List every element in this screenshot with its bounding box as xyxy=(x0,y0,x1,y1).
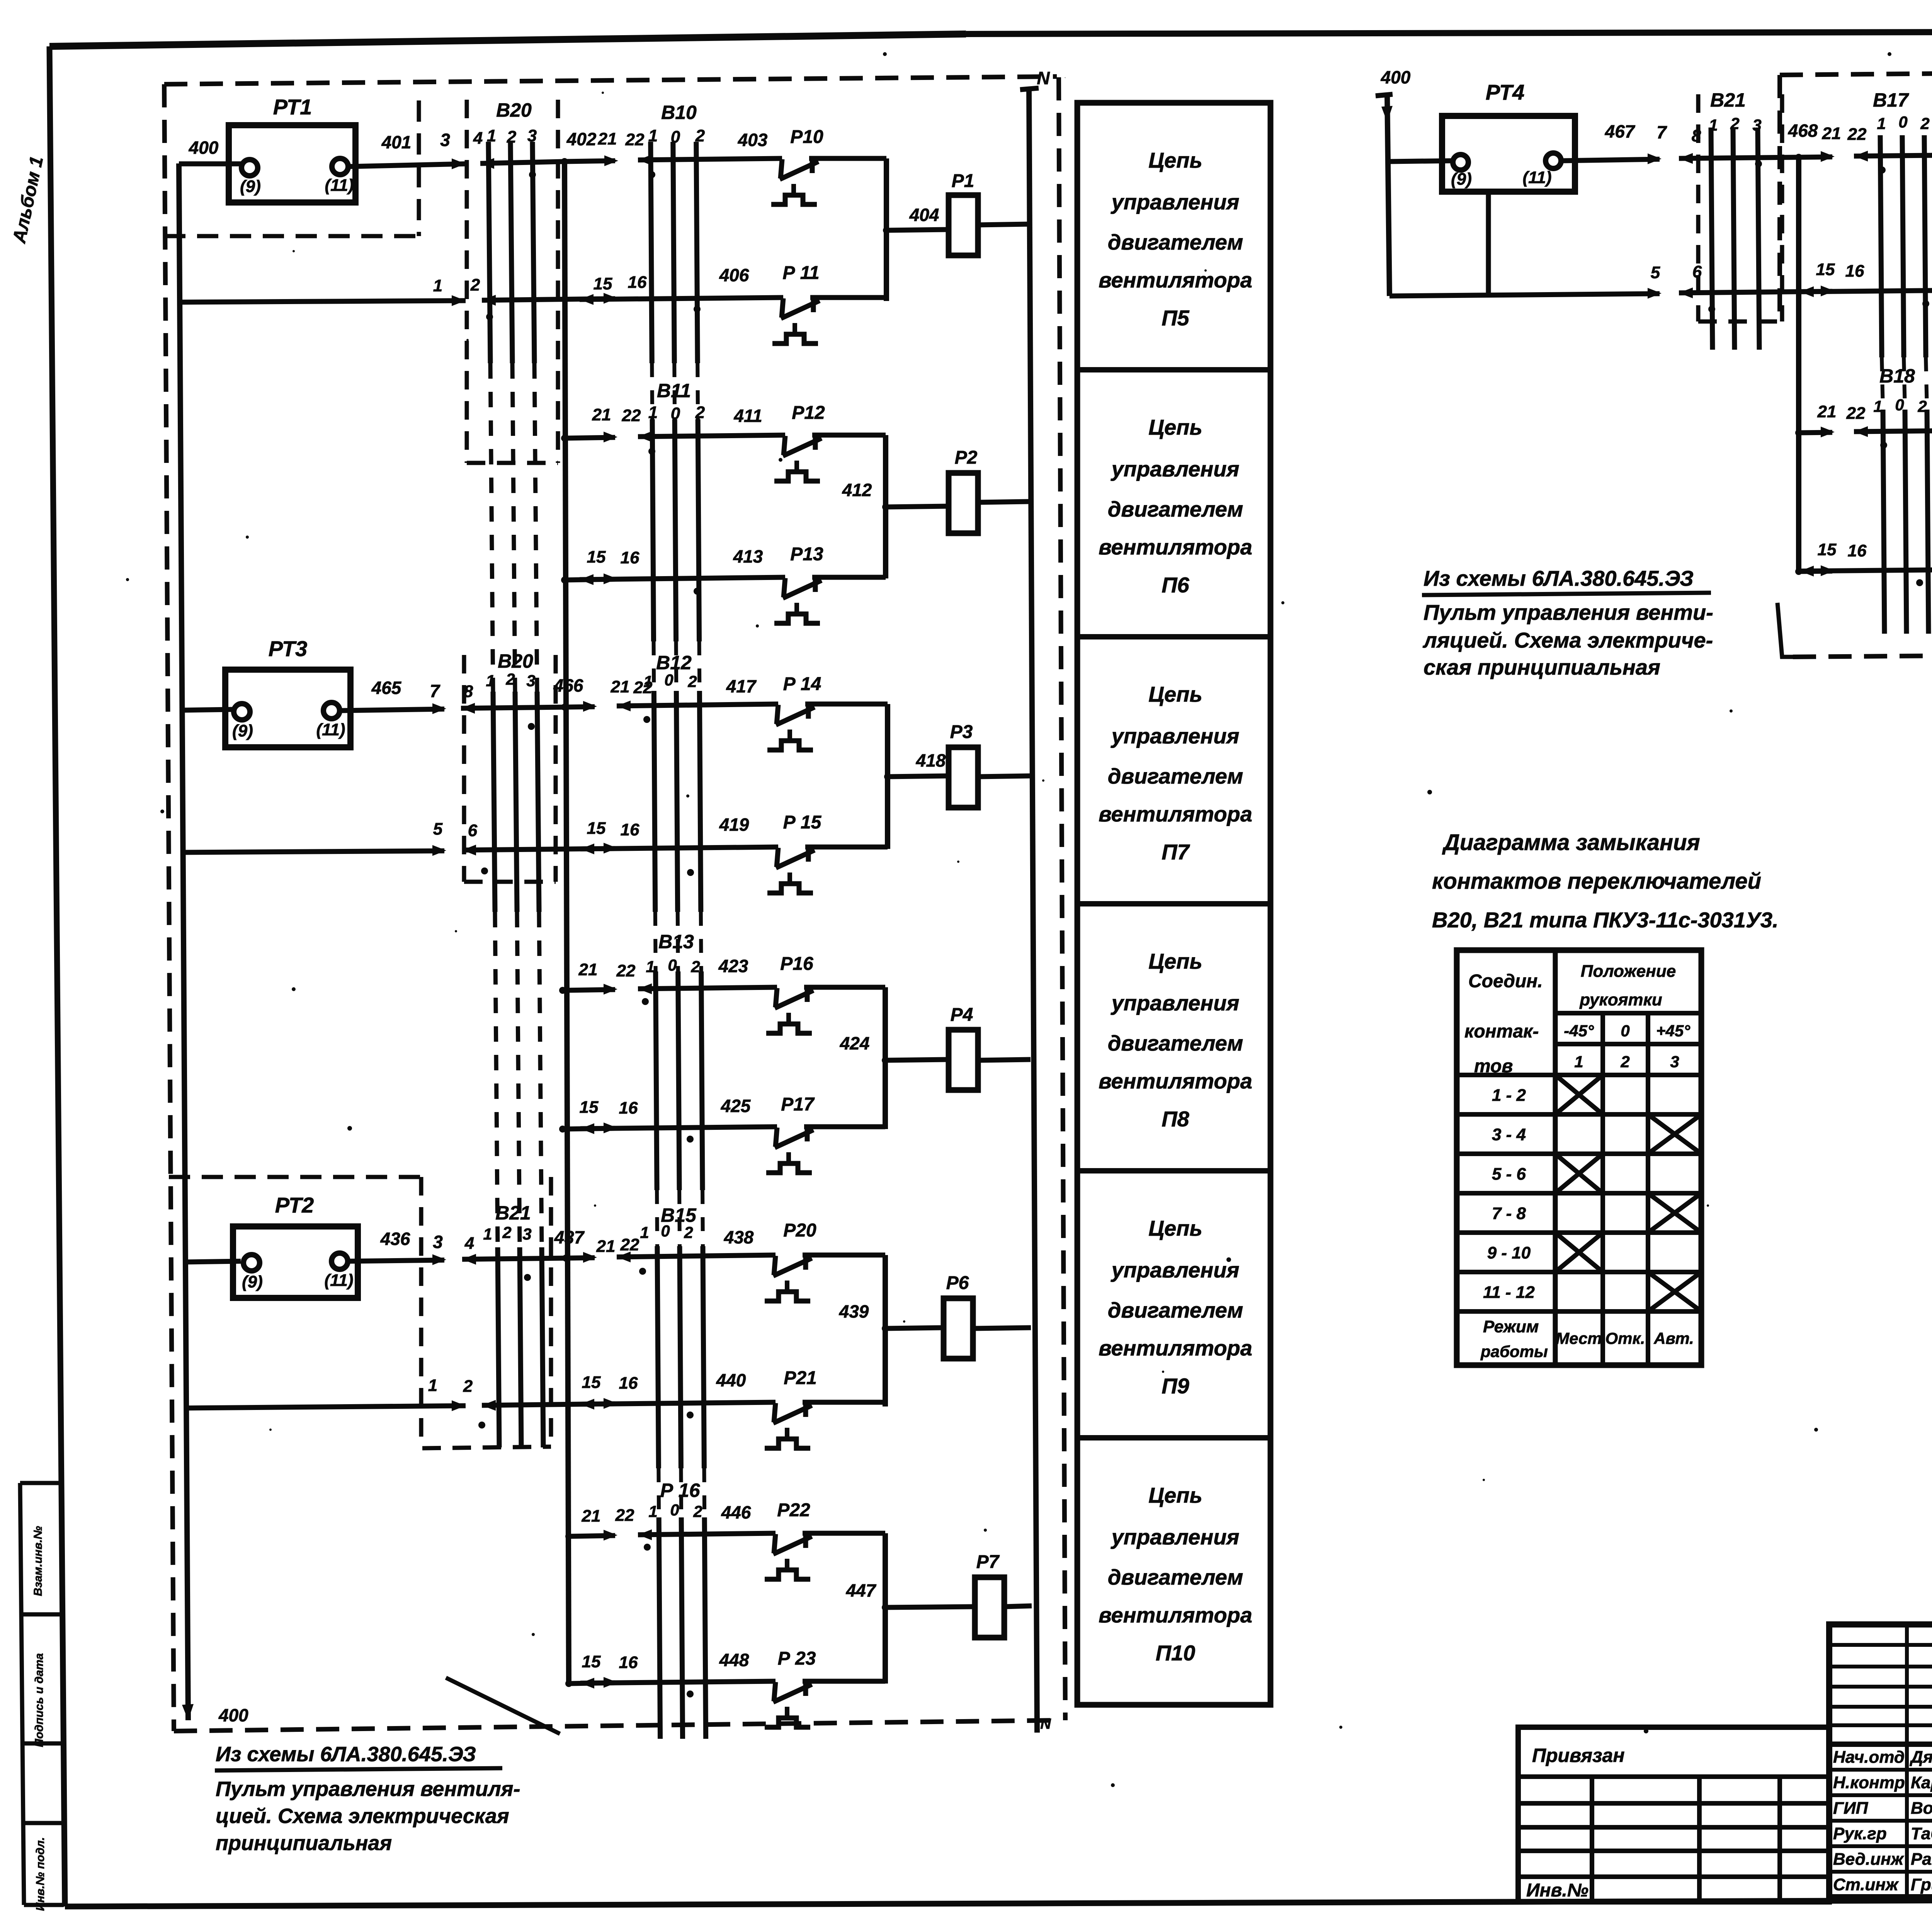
svg-text:16: 16 xyxy=(1848,541,1867,560)
svg-text:15: 15 xyxy=(1816,260,1835,279)
svg-text:Р6: Р6 xyxy=(946,1273,969,1293)
svg-text:440: 440 xyxy=(716,1370,746,1390)
svg-text:22: 22 xyxy=(615,1506,634,1525)
contact Р12 xyxy=(774,434,821,481)
svg-text:0: 0 xyxy=(668,956,677,974)
vertical feed wire 402/466/437 xyxy=(565,162,569,1684)
callout leader xyxy=(446,1678,560,1734)
thermostat RT4 xyxy=(1442,116,1575,192)
svg-text:В20, В21 типа ПКУ3-11с-3031У3.: В20, В21 типа ПКУ3-11с-3031У3. xyxy=(1432,908,1779,932)
svg-text:446: 446 xyxy=(721,1502,751,1522)
function description boxes P5-P10 xyxy=(1077,103,1270,1705)
svg-text:Взам.инв.№: Взам.инв.№ xyxy=(32,1526,44,1596)
svg-text:Отк.: Отк. xyxy=(1605,1329,1645,1347)
svg-text:2: 2 xyxy=(695,403,705,422)
svg-text:двигателем: двигателем xyxy=(1108,764,1243,788)
svg-text:1: 1 xyxy=(486,672,495,690)
contact Р16 xyxy=(766,986,813,1033)
contact Р13 xyxy=(774,577,821,623)
svg-text:7: 7 xyxy=(1656,122,1667,142)
svg-text:Р20: Р20 xyxy=(783,1220,816,1241)
svg-text:вентилятора: вентилятора xyxy=(1099,268,1252,292)
svg-text:Положение: Положение xyxy=(1581,962,1676,981)
svg-text:8: 8 xyxy=(464,682,473,701)
svg-text:16: 16 xyxy=(619,1653,638,1672)
svg-text:16: 16 xyxy=(619,1099,638,1117)
svg-text:2: 2 xyxy=(502,1223,511,1242)
svg-text:Р21: Р21 xyxy=(784,1368,816,1388)
svg-text:465: 465 xyxy=(371,678,402,698)
svg-text:468: 468 xyxy=(1788,121,1818,141)
svg-text:Р16: Р16 xyxy=(780,954,813,974)
svg-text:1: 1 xyxy=(646,957,655,976)
left margin strip xyxy=(20,1483,24,1905)
svg-text:В20: В20 xyxy=(498,650,533,672)
row B of P6 group xyxy=(565,579,615,580)
svg-text:2: 2 xyxy=(1917,397,1927,415)
svg-text:Нач.отд: Нач.отд xyxy=(1833,1748,1905,1767)
svg-text:(9): (9) xyxy=(1451,170,1472,189)
thermostat RT1 dashed box xyxy=(164,234,419,238)
svg-text:423: 423 xyxy=(718,956,748,976)
svg-text:Ратнер: Ратнер xyxy=(1911,1850,1932,1869)
svg-text:В21: В21 xyxy=(1710,89,1746,111)
svg-text:11 - 12: 11 - 12 xyxy=(1483,1283,1535,1302)
svg-text:418: 418 xyxy=(916,750,946,770)
thermostat RT1 xyxy=(229,125,355,202)
svg-text:1: 1 xyxy=(483,1225,492,1243)
svg-text:2: 2 xyxy=(463,1377,473,1396)
svg-text:1: 1 xyxy=(433,276,442,295)
coil wire 404 xyxy=(886,230,949,230)
svg-text:413: 413 xyxy=(733,546,763,566)
B20 dashed box (RT1 deck) xyxy=(465,100,469,463)
row B of P11 group xyxy=(1389,294,1660,296)
svg-text:411: 411 xyxy=(733,406,762,426)
svg-text:0: 0 xyxy=(671,404,680,423)
node 400 bus xyxy=(179,163,188,1720)
svg-text:16: 16 xyxy=(621,820,639,839)
svg-text:управления: управления xyxy=(1111,1258,1240,1282)
svg-text:Из схемы 6ЛА.380.645.ЭЗ: Из схемы 6ЛА.380.645.ЭЗ xyxy=(216,1743,476,1766)
svg-text:Р17: Р17 xyxy=(781,1094,815,1115)
svg-text:21: 21 xyxy=(1822,124,1841,143)
svg-text:3: 3 xyxy=(440,130,450,150)
row B of P8 group xyxy=(563,1128,615,1129)
svg-text:Дячук: Дячук xyxy=(1909,1748,1932,1767)
B20 dashed box (RT3 deck) xyxy=(462,655,466,882)
svg-text:3: 3 xyxy=(433,1232,443,1252)
svg-text:3: 3 xyxy=(526,672,535,690)
svg-text:0: 0 xyxy=(1898,113,1907,131)
svg-text:Н.контр: Н.контр xyxy=(1833,1773,1905,1792)
svg-text:447: 447 xyxy=(846,1580,877,1600)
svg-text:439: 439 xyxy=(839,1301,869,1321)
svg-text:21: 21 xyxy=(596,1237,616,1256)
svg-text:1: 1 xyxy=(428,1376,437,1395)
svg-text:4: 4 xyxy=(464,1234,474,1253)
svg-text:0: 0 xyxy=(1895,396,1904,414)
svg-text:вентилятора: вентилятора xyxy=(1099,802,1252,826)
svg-text:В12: В12 xyxy=(656,652,692,673)
svg-text:Р 23: Р 23 xyxy=(778,1648,816,1669)
svg-text:21: 21 xyxy=(598,129,617,148)
wire 401 xyxy=(348,164,466,167)
svg-text:Табачник: Табачник xyxy=(1911,1824,1932,1843)
svg-text:2: 2 xyxy=(695,126,705,145)
svg-text:Р12: Р12 xyxy=(792,403,825,423)
svg-text:Цепь: Цепь xyxy=(1148,1483,1202,1507)
row B of P12 group xyxy=(1799,571,1832,571)
svg-text:Р 11: Р 11 xyxy=(782,263,819,283)
svg-text:ГИП: ГИП xyxy=(1833,1799,1869,1818)
svg-text:401: 401 xyxy=(381,132,412,152)
svg-text:Цепь: Цепь xyxy=(1148,415,1202,439)
svg-text:П5: П5 xyxy=(1162,306,1189,330)
B17 columns xyxy=(1880,135,1882,357)
svg-text:Р4: Р4 xyxy=(951,1005,973,1025)
B21 right dashed box xyxy=(1696,94,1701,321)
svg-text:5: 5 xyxy=(433,820,443,838)
contact Р23 xyxy=(765,1680,812,1727)
svg-text:448: 448 xyxy=(719,1650,749,1670)
svg-text:21: 21 xyxy=(592,405,611,424)
svg-text:3: 3 xyxy=(1670,1053,1679,1071)
junction vertical P5 xyxy=(884,158,889,301)
svg-text:9 - 10: 9 - 10 xyxy=(1487,1243,1531,1262)
svg-text:22: 22 xyxy=(622,406,641,425)
svg-text:ляцией. Схема электриче-: ляцией. Схема электриче- xyxy=(1422,628,1713,652)
B21 dashed box (RT2 deck) xyxy=(419,1177,423,1448)
svg-text:двигателем: двигателем xyxy=(1108,1565,1243,1589)
svg-text:(11): (11) xyxy=(316,720,345,739)
svg-text:406: 406 xyxy=(719,265,749,285)
svg-text:Цепь: Цепь xyxy=(1148,949,1202,973)
svg-text:22: 22 xyxy=(1846,404,1866,423)
svg-text:Подпись и дата: Подпись и дата xyxy=(33,1653,46,1747)
svg-text:1 - 2: 1 - 2 xyxy=(1492,1086,1526,1105)
svg-text:7 - 8: 7 - 8 xyxy=(1492,1204,1526,1223)
svg-text:В17: В17 xyxy=(1873,89,1909,111)
contact Р21 xyxy=(765,1401,812,1448)
svg-text:6: 6 xyxy=(468,821,478,840)
svg-text:Соедин.: Соедин. xyxy=(1468,971,1543,992)
thermostat RT2 dashed box xyxy=(169,1175,421,1179)
svg-text:управления: управления xyxy=(1111,1525,1240,1549)
svg-text:22: 22 xyxy=(620,1235,639,1254)
svg-text:(9): (9) xyxy=(240,177,261,196)
svg-text:15: 15 xyxy=(587,819,606,838)
relay coil Р6 xyxy=(944,1298,973,1359)
svg-text:Рук.гр: Рук.гр xyxy=(1833,1824,1887,1843)
svg-text:21: 21 xyxy=(611,677,630,696)
svg-text:управления: управления xyxy=(1111,190,1240,214)
svg-text:В10: В10 xyxy=(661,102,697,123)
svg-text:2: 2 xyxy=(687,672,697,690)
contact Р17 xyxy=(766,1126,813,1173)
svg-text:вентилятора: вентилятора xyxy=(1099,1336,1252,1360)
svg-text:1: 1 xyxy=(643,672,652,690)
svg-text:466: 466 xyxy=(553,675,583,696)
svg-text:Привязан: Привязан xyxy=(1532,1745,1625,1766)
svg-text:(11): (11) xyxy=(325,176,354,195)
svg-text:15: 15 xyxy=(580,1098,599,1117)
svg-text:6: 6 xyxy=(1692,262,1702,281)
svg-text:РТ1: РТ1 xyxy=(273,95,312,119)
right schema: feed 400 xyxy=(1376,94,1393,96)
svg-text:5: 5 xyxy=(1651,263,1660,282)
svg-text:Р1: Р1 xyxy=(952,171,975,191)
relay coil Р7 xyxy=(975,1577,1004,1638)
contact Р10 xyxy=(771,158,818,204)
svg-text:Р10: Р10 xyxy=(790,127,823,147)
contact Р22 xyxy=(765,1532,812,1579)
svg-text:7: 7 xyxy=(430,681,440,701)
svg-text:438: 438 xyxy=(724,1227,754,1247)
svg-text:двигателем: двигателем xyxy=(1108,497,1243,521)
contact closure table xyxy=(1457,950,1701,1365)
svg-text:В11: В11 xyxy=(657,380,691,401)
svg-text:РТ2: РТ2 xyxy=(275,1193,314,1217)
row B of P7 group xyxy=(182,851,444,852)
svg-text:22: 22 xyxy=(1847,125,1867,144)
svg-text:21: 21 xyxy=(1817,402,1837,421)
svg-text:1: 1 xyxy=(1877,114,1886,133)
svg-text:2: 2 xyxy=(470,276,480,294)
svg-text:контактов переключателей: контактов переключателей xyxy=(1432,869,1761,894)
contact Р20 xyxy=(765,1254,812,1301)
svg-text:тов: тов xyxy=(1474,1056,1513,1077)
svg-text:Р 15: Р 15 xyxy=(783,812,822,833)
svg-text:Цепь: Цепь xyxy=(1148,1216,1202,1240)
svg-text:Р 16: Р 16 xyxy=(660,1480,701,1501)
svg-text:(9): (9) xyxy=(232,721,253,740)
svg-text:Р3: Р3 xyxy=(950,722,973,742)
svg-text:0: 0 xyxy=(664,671,673,689)
svg-text:-45°: -45° xyxy=(1564,1022,1594,1040)
svg-text:0: 0 xyxy=(1621,1022,1629,1040)
svg-text:404: 404 xyxy=(909,205,939,225)
relay coil Р1 xyxy=(949,195,978,255)
svg-text:РТ4: РТ4 xyxy=(1486,80,1525,104)
thermostat RT3 xyxy=(225,670,350,747)
thermostat RT2 xyxy=(233,1226,358,1298)
svg-text:1: 1 xyxy=(640,1223,649,1242)
svg-text:РТ3: РТ3 xyxy=(269,636,308,661)
svg-text:(11): (11) xyxy=(325,1271,354,1290)
relay coil Р4 xyxy=(949,1030,978,1090)
svg-text:16: 16 xyxy=(621,548,639,567)
svg-text:15: 15 xyxy=(1818,540,1837,559)
svg-text:22: 22 xyxy=(625,130,645,149)
svg-text:0: 0 xyxy=(671,128,680,146)
svg-text:Инв.№ подл.: Инв.№ подл. xyxy=(34,1837,47,1911)
B1x switch columns xyxy=(651,142,652,363)
contact Р11 xyxy=(772,297,820,344)
svg-text:15: 15 xyxy=(582,1373,601,1392)
wire P10 out to junction xyxy=(809,156,886,161)
svg-text:контак-: контак- xyxy=(1464,1021,1539,1042)
right panel dashed enclosure xyxy=(1780,70,1932,75)
svg-text:2: 2 xyxy=(1920,114,1929,133)
title block main xyxy=(1829,1624,1932,1897)
svg-text:5 - 6: 5 - 6 xyxy=(1492,1165,1526,1184)
svg-text:П6: П6 xyxy=(1162,573,1189,597)
svg-text:Вед.инж: Вед.инж xyxy=(1833,1850,1905,1869)
svg-text:16: 16 xyxy=(1845,262,1864,281)
svg-text:работы: работы xyxy=(1480,1342,1548,1361)
svg-text:22: 22 xyxy=(616,961,636,980)
svg-text:П9: П9 xyxy=(1162,1374,1189,1398)
svg-text:двигателем: двигателем xyxy=(1108,230,1243,254)
svg-text:управления: управления xyxy=(1111,724,1240,748)
svg-text:Р2: Р2 xyxy=(955,447,978,468)
svg-text:Володина: Володина xyxy=(1911,1799,1932,1818)
svg-text:двигателем: двигателем xyxy=(1108,1298,1243,1322)
row B of P5 group xyxy=(182,301,466,302)
svg-text:вентилятора: вентилятора xyxy=(1099,535,1252,559)
svg-text:Инв.№: Инв.№ xyxy=(1526,1880,1588,1901)
svg-text:436: 436 xyxy=(380,1229,410,1249)
svg-text:3: 3 xyxy=(522,1225,531,1243)
svg-text:Авт.: Авт. xyxy=(1653,1329,1694,1347)
svg-text:N: N xyxy=(1040,1716,1051,1732)
svg-text:21: 21 xyxy=(582,1507,601,1526)
svg-text:1: 1 xyxy=(648,126,658,145)
svg-text:2: 2 xyxy=(693,1502,702,1520)
contact Р14 xyxy=(767,703,815,750)
svg-text:417: 417 xyxy=(726,676,757,696)
svg-text:Р13: Р13 xyxy=(790,544,823,565)
svg-text:402: 402 xyxy=(566,129,597,149)
svg-text:Р22: Р22 xyxy=(777,1500,810,1520)
svg-text:400: 400 xyxy=(218,1705,248,1725)
svg-text:419: 419 xyxy=(719,815,749,835)
svg-text:16: 16 xyxy=(619,1374,638,1393)
svg-text:+45°: +45° xyxy=(1656,1022,1690,1040)
left control-panel dashed enclosure xyxy=(164,77,1057,84)
svg-text:ская принципиальная: ская принципиальная xyxy=(1423,655,1660,679)
svg-text:424: 424 xyxy=(840,1033,870,1053)
B21 right columns xyxy=(1711,128,1713,350)
svg-text:Р7: Р7 xyxy=(976,1552,1000,1572)
neutral N line left xyxy=(1020,88,1039,90)
svg-text:двигателем: двигателем xyxy=(1108,1031,1243,1055)
svg-text:N: N xyxy=(1037,68,1050,88)
leader xyxy=(1777,603,1814,657)
svg-text:В18: В18 xyxy=(1879,365,1915,387)
selector switch B20/B21 columns xyxy=(488,142,490,363)
svg-text:1: 1 xyxy=(1873,397,1882,415)
svg-text:425: 425 xyxy=(721,1096,751,1116)
svg-text:управления: управления xyxy=(1111,991,1240,1015)
svg-text:П10: П10 xyxy=(1156,1641,1196,1665)
relay coil Р2 xyxy=(949,473,978,533)
svg-text:Каратаева: Каратаева xyxy=(1911,1773,1932,1792)
svg-text:Цепь: Цепь xyxy=(1148,148,1202,172)
svg-text:21: 21 xyxy=(578,960,598,979)
title block left part xyxy=(1518,1727,1829,1902)
svg-text:16: 16 xyxy=(628,273,647,292)
svg-text:2: 2 xyxy=(690,957,700,976)
svg-text:1: 1 xyxy=(1574,1053,1583,1071)
svg-text:П7: П7 xyxy=(1162,840,1190,864)
svg-text:вентилятора: вентилятора xyxy=(1099,1069,1252,1093)
wire 400 to RT1 xyxy=(179,162,242,167)
svg-text:400: 400 xyxy=(1381,67,1411,87)
svg-text:Цепь: Цепь xyxy=(1148,682,1202,706)
svg-text:вентилятора: вентилятора xyxy=(1099,1603,1252,1627)
svg-text:437: 437 xyxy=(554,1227,585,1247)
row B of P9 group xyxy=(187,1406,466,1408)
svg-text:Режим: Режим xyxy=(1483,1317,1539,1336)
svg-text:4: 4 xyxy=(473,129,483,148)
svg-text:Пульт управления венти-: Пульт управления венти- xyxy=(1423,600,1713,624)
svg-text:Р 14: Р 14 xyxy=(783,674,821,694)
svg-text:(9): (9) xyxy=(242,1272,263,1291)
svg-text:400: 400 xyxy=(189,138,219,158)
svg-text:рукоятки: рукоятки xyxy=(1579,990,1662,1009)
svg-text:принципиальная: принципиальная xyxy=(216,1832,392,1855)
svg-text:Пульт управления вентиля-: Пульт управления вентиля- xyxy=(216,1777,520,1801)
svg-text:0: 0 xyxy=(661,1222,670,1240)
svg-text:15: 15 xyxy=(587,548,606,566)
svg-text:15: 15 xyxy=(582,1652,601,1671)
svg-text:412: 412 xyxy=(842,480,872,500)
relay coil Р3 xyxy=(949,747,978,808)
svg-text:В21: В21 xyxy=(495,1202,531,1224)
svg-text:15: 15 xyxy=(594,274,612,293)
svg-text:Диаграмма замыкания: Диаграмма замыкания xyxy=(1442,830,1700,855)
row B of P10 group xyxy=(569,1683,615,1684)
svg-text:цией. Схема электрическая: цией. Схема электрическая xyxy=(216,1804,509,1828)
svg-text:В13: В13 xyxy=(658,931,694,952)
wire 402 xyxy=(565,161,615,162)
svg-text:(11): (11) xyxy=(1523,168,1552,187)
svg-text:управления: управления xyxy=(1111,457,1240,481)
svg-text:В20: В20 xyxy=(496,99,532,121)
svg-text:3 - 4: 3 - 4 xyxy=(1492,1125,1526,1144)
contact Р15 xyxy=(767,846,815,893)
svg-text:403: 403 xyxy=(738,130,768,150)
svg-text:2: 2 xyxy=(684,1223,693,1242)
svg-text:П8: П8 xyxy=(1162,1107,1189,1131)
svg-text:1: 1 xyxy=(648,403,658,422)
svg-text:0: 0 xyxy=(670,1501,679,1519)
svg-text:467: 467 xyxy=(1605,121,1636,141)
svg-text:Из схемы 6ЛА.380.645.ЭЗ: Из схемы 6ЛА.380.645.ЭЗ xyxy=(1423,566,1694,590)
drawing frame border xyxy=(49,34,966,46)
svg-text:1: 1 xyxy=(648,1502,657,1520)
svg-text:2: 2 xyxy=(1620,1053,1629,1071)
svg-text:Ст.инж: Ст.инж xyxy=(1833,1875,1899,1894)
svg-text:Мест: Мест xyxy=(1556,1329,1602,1347)
svg-text:Гришанова: Гришанова xyxy=(1911,1875,1932,1894)
wire to B20 xyxy=(480,158,494,169)
svg-text:2: 2 xyxy=(505,670,515,688)
